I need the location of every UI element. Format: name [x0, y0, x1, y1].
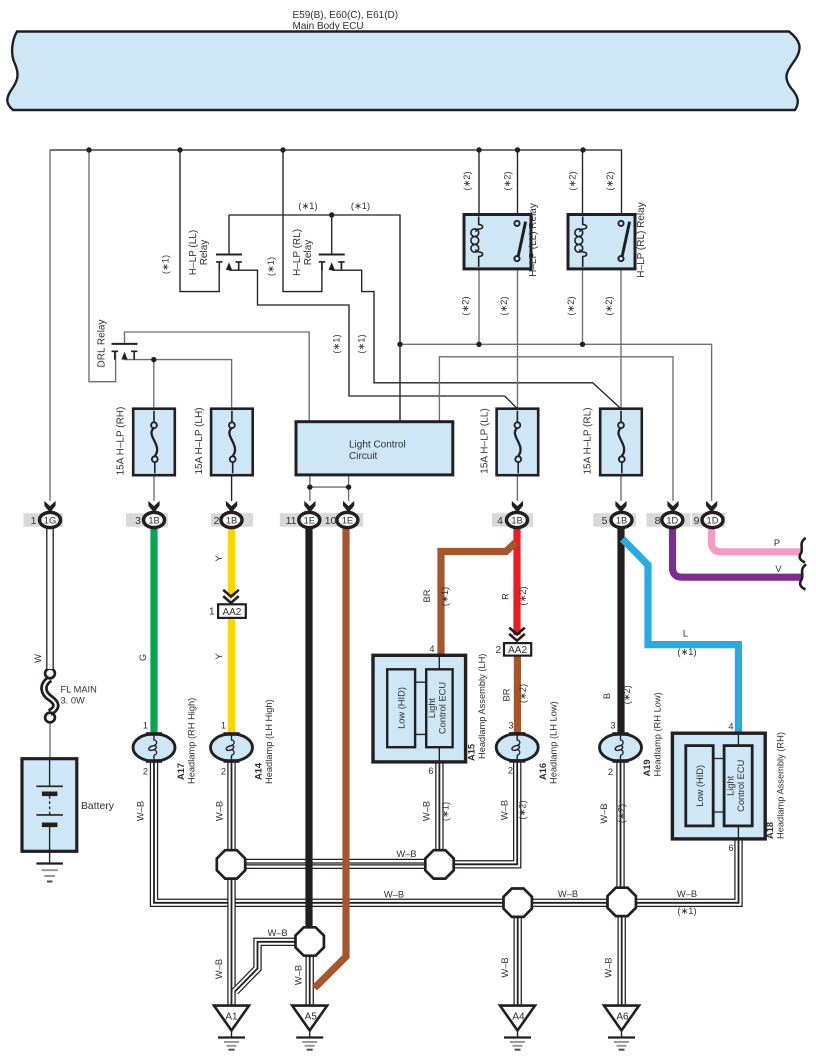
wire: RL relay coil down to coil node [582, 269, 584, 344]
splice octagon J4 [608, 888, 636, 916]
svg-text:9: 9 [694, 516, 700, 527]
svg-text:(∗2): (∗2) [517, 800, 527, 819]
svg-text:15A H–LP (RH): 15A H–LP (RH) [116, 407, 127, 476]
svg-text:(∗2): (∗2) [566, 296, 576, 315]
svg-text:(∗2): (∗2) [461, 296, 471, 315]
svg-text:(∗1): (∗1) [677, 647, 696, 657]
fusible link FL MAIN 3.0W [44, 669, 56, 723]
svg-text:5: 5 [602, 516, 608, 527]
svg-text:A19: A19 [642, 759, 652, 776]
wire BR: brown branch to headlamp assembly LH pin 4 [441, 543, 516, 657]
headlamp bulb A14 (LH High) [211, 732, 253, 763]
continuation brace on violet wire [800, 565, 806, 590]
wire B: black wire connector 5 to headlamp A19 [617, 524, 624, 734]
svg-text:R: R [501, 593, 511, 600]
transistor H-LP (RL) Relay [319, 255, 345, 271]
svg-text:3: 3 [610, 721, 615, 731]
arrow into connector 4 [512, 501, 523, 513]
svg-text:15A H–LP (LH): 15A H–LP (LH) [194, 407, 205, 474]
wire: bus drop to H-LP (RL) relay transistor left pin [283, 150, 322, 292]
wire W-B: headlamp A19 down to splice [616, 760, 624, 889]
wire BR: brown wire connector 10 to ground A5 [315, 524, 347, 988]
svg-text:Headlamp (LH Low): Headlamp (LH Low) [549, 701, 559, 784]
wire: bus drop to LL relay switch [517, 150, 519, 215]
wire W-B: splice down to ground A1 [227, 878, 235, 1007]
wire: Light Control Circuit pin to connector 8 (1D) [439, 357, 673, 501]
wire: bus drop to DRL relay left pin [89, 150, 116, 382]
ground A1 [214, 1006, 249, 1050]
svg-text:(∗1): (∗1) [332, 334, 342, 353]
battery box [22, 759, 77, 852]
splice octagon J3 [504, 889, 532, 917]
svg-text:1B: 1B [148, 516, 159, 526]
svg-text:A18: A18 [765, 822, 775, 839]
headlamp bulb A19 (RH Low) [600, 732, 642, 763]
wire: bus drop to H-LP (LL) relay transistor left pin [180, 150, 219, 292]
fuse 15A H-LP (LL) [497, 409, 539, 476]
svg-text:W–B: W–B [500, 957, 510, 977]
svg-text:Y: Y [214, 555, 224, 561]
arrow into connector 5 [615, 501, 626, 513]
wire W-B: upper narrow pair splice to splice [245, 859, 426, 864]
svg-text:1B: 1B [616, 516, 627, 526]
svg-text:8: 8 [655, 516, 661, 527]
wire: LL relay coil down to coil node [478, 269, 480, 344]
svg-text:Light: Light [726, 775, 736, 796]
Main Body ECU band [7, 32, 799, 111]
svg-text:BR: BR [502, 688, 512, 701]
continuation brace on pink wire [800, 538, 806, 563]
svg-text:1E: 1E [342, 516, 353, 526]
svg-text:(∗2): (∗2) [622, 685, 632, 704]
wire W-B: headlamp A17 to splice, long run to right [154, 760, 504, 903]
headlamp bulb A17 (RH High) [133, 732, 175, 763]
svg-text:A15: A15 [467, 744, 477, 761]
svg-text:Y: Y [214, 653, 224, 659]
svg-text:15A H–LP (RL): 15A H–LP (RL) [583, 407, 594, 474]
svg-text:(∗1): (∗1) [677, 906, 696, 916]
svg-text:W–B: W–B [396, 849, 416, 859]
headlamp assembly LH box A15 [373, 655, 466, 762]
svg-text:Low (HID): Low (HID) [397, 687, 407, 729]
svg-text:H–LP (LL): H–LP (LL) [188, 230, 199, 275]
svg-text:(∗2): (∗2) [568, 171, 578, 190]
svg-text:W–B: W–B [603, 957, 613, 977]
svg-text:H–LP (RL): H–LP (RL) [292, 229, 303, 276]
svg-text:1B: 1B [226, 516, 237, 526]
wire W-B: headlamp A16 down and left to splice [453, 760, 517, 865]
wire W-B: splice down to ground A4 [514, 917, 522, 1007]
wire BR: brown wire AA2 to headlamp A16 [514, 656, 521, 734]
svg-text:W–B: W–B [294, 965, 304, 985]
connector oval 8 (1D) [662, 512, 683, 527]
splice octagon J1 [217, 850, 245, 878]
wire: LL transistor output to 15A H-LP (LL) fuse [229, 270, 517, 409]
svg-text:(∗1): (∗1) [440, 802, 450, 821]
relay H-LP (RL) Relay box [568, 215, 635, 269]
arrow into connector 10 [343, 501, 354, 513]
svg-text:W–B: W–B [268, 928, 288, 938]
svg-text:Low (HID): Low (HID) [695, 765, 705, 807]
connector oval 5 (1B) [611, 512, 632, 527]
wire: LH fuse output to connector 2 (1B) [231, 475, 233, 501]
wire W-B: splice down to ground A5 [306, 955, 314, 1006]
fuse 15A H-LP (RH) [133, 409, 175, 476]
wire: bus drop to RL relay coil [582, 150, 584, 215]
wire L: light blue wire to headlamp assembly RH pin 4 [623, 539, 739, 733]
ground A6 [604, 1006, 639, 1050]
svg-text:Battery: Battery [81, 801, 115, 812]
wire W-B: splice to headlamp assembly RH pin 6 [635, 838, 738, 903]
svg-text:(∗1): (∗1) [351, 201, 370, 211]
transistor DRL Relay [112, 344, 138, 360]
svg-text:1: 1 [31, 516, 37, 527]
fuse 15A H-LP (LH) [211, 409, 253, 476]
wire: LL relay switch down to LL fuse [517, 269, 519, 409]
wire W-B: lower narrow pair splice to splice [245, 864, 426, 869]
svg-text:B: B [602, 693, 612, 699]
svg-text:A17: A17 [176, 763, 186, 780]
connector junction AA2 pin 2 with double chevron [509, 628, 525, 641]
svg-text:1G: 1G [44, 516, 56, 526]
connector oval 11 (1E) [299, 512, 320, 527]
svg-text:1B: 1B [511, 516, 522, 526]
wire: bus drop to connector 1 (1G) [49, 150, 51, 501]
arrow into connector 3 [148, 501, 159, 513]
wire: Light Control Circuit outputs to connectors 11 and 10 (1E) [310, 475, 349, 501]
headlamp bulb A16 (LH Low) [496, 732, 538, 763]
connector oval 2 (1B) [221, 512, 242, 527]
svg-text:W–B: W–B [136, 801, 146, 821]
connector oval 9 (1D) [702, 512, 723, 527]
fuse 15A H-LP (RL) [600, 409, 642, 476]
transistor H-LP (LL) Relay [216, 255, 242, 271]
svg-text:W–B: W–B [599, 803, 609, 823]
wire: bus drop to LL relay coil [478, 150, 480, 215]
wire: RH fuse output to connector 3 (1B) [153, 475, 155, 501]
arrow into connector 8 [667, 501, 678, 513]
wire: RL transistor right stem [341, 262, 343, 270]
wire: RL transistor output to 15A H-LP (RL) fuse [332, 270, 621, 409]
wire Y: yellow wire AA2 to headlamp A14 [228, 618, 235, 734]
wire W-B: splice to splice run [532, 899, 608, 907]
svg-text:4: 4 [728, 722, 733, 732]
relay H-LP (LL) Relay box [464, 215, 531, 269]
splice octagon J5 [296, 927, 324, 955]
svg-text:2: 2 [221, 767, 226, 777]
connector oval 1 (1G) [40, 512, 61, 527]
wire B: black wire connector 11 to splice [305, 524, 312, 928]
battery ground symbol [36, 851, 63, 881]
svg-text:1: 1 [209, 607, 215, 618]
wire: FL MAIN fuse to battery [49, 723, 51, 759]
wire: RL relay switch down to RL fuse [620, 269, 622, 409]
svg-text:1E: 1E [304, 516, 315, 526]
svg-text:(∗2): (∗2) [617, 804, 627, 823]
svg-text:11: 11 [286, 516, 297, 527]
svg-text:A6: A6 [616, 1012, 629, 1023]
ground A4 [500, 1006, 535, 1050]
wire: LL fuse output to connector 4 (1B) [516, 475, 518, 501]
svg-text:(∗2): (∗2) [605, 171, 615, 190]
svg-text:FL MAIN: FL MAIN [61, 685, 97, 695]
svg-text:(∗1): (∗1) [266, 257, 276, 276]
Light Control Circuit box [296, 422, 453, 475]
svg-text:A5: A5 [305, 1012, 318, 1023]
svg-text:Headlamp (RH High): Headlamp (RH High) [187, 698, 197, 784]
svg-text:Headlamp Assembly (RH): Headlamp Assembly (RH) [776, 732, 786, 839]
svg-text:(∗1): (∗1) [161, 255, 171, 274]
svg-text:W–B: W–B [214, 959, 224, 979]
svg-text:2: 2 [143, 767, 148, 777]
svg-text:BR: BR [422, 589, 432, 602]
wire P: pink wire connector 9 [712, 524, 801, 552]
wire: RL fuse output to connector 5 (1B) [620, 475, 622, 501]
svg-text:V: V [775, 564, 782, 574]
wire: RL transistor gate stub [331, 215, 333, 255]
svg-text:W: W [33, 654, 43, 663]
svg-text:G: G [138, 654, 148, 661]
svg-text:(∗2): (∗2) [503, 171, 513, 190]
svg-text:Light: Light [427, 698, 437, 719]
svg-text:(∗2): (∗2) [518, 684, 528, 703]
svg-text:W–B: W–B [677, 889, 697, 899]
arrow into connector 1 [44, 501, 55, 513]
wire: LL transistor gate stub [228, 215, 230, 255]
svg-text:1: 1 [221, 721, 226, 731]
svg-text:(∗2): (∗2) [518, 586, 528, 605]
svg-text:E59(B), E60(C), E61(D): E59(B), E60(C), E61(D) [293, 10, 399, 21]
svg-text:2: 2 [495, 645, 501, 656]
arrow into connector 11 [304, 501, 315, 513]
connector band row [23, 513, 725, 527]
svg-text:(∗1): (∗1) [298, 201, 317, 211]
svg-text:W–B: W–B [422, 801, 432, 821]
svg-text:Light Control: Light Control [349, 440, 406, 451]
wire G: green wire to headlamp A17 [150, 524, 157, 734]
svg-text:1: 1 [143, 721, 148, 731]
svg-text:H–LP (LL) Relay: H–LP (LL) Relay [528, 203, 539, 277]
wire W-B: splice down to ground A6 [618, 916, 626, 1007]
svg-text:(∗1): (∗1) [357, 334, 367, 353]
svg-text:6: 6 [428, 766, 433, 776]
wire W-B: headlamp A14 down to splice [227, 760, 235, 852]
svg-text:15A H–LP (LL): 15A H–LP (LL) [480, 408, 491, 473]
battery internal plates [36, 759, 63, 852]
wire: relay coil node line to connector 9 (1D) [400, 344, 712, 501]
svg-text:1D: 1D [707, 516, 719, 526]
svg-text:AA2: AA2 [222, 607, 241, 618]
svg-text:4: 4 [429, 644, 434, 654]
svg-text:Main Body ECU: Main Body ECU [293, 21, 364, 32]
wire: DRL relay gate from Light Control Circuit [125, 332, 310, 422]
wire: power bus from battery feed to relays [50, 150, 622, 215]
junction dots on power bus and nodes [86, 147, 585, 490]
svg-text:W–B: W–B [558, 889, 578, 899]
svg-text:Circuit: Circuit [349, 451, 378, 462]
wire: LL transistor right stem [238, 262, 240, 270]
svg-text:2: 2 [508, 766, 513, 776]
wire Y: yellow wire to AA2 [228, 524, 235, 597]
svg-text:AA2: AA2 [508, 645, 527, 656]
svg-text:W–B: W–B [215, 801, 225, 821]
wire W-B: headlamp assembly LH pin 6 to splice [435, 761, 443, 851]
svg-text:2: 2 [214, 516, 220, 527]
svg-text:3. 0W: 3. 0W [61, 696, 86, 706]
svg-text:10: 10 [325, 516, 337, 527]
headlamp assembly RH box A18 [672, 733, 765, 839]
connector oval 10 (1E) [337, 512, 358, 527]
svg-text:W–B: W–B [500, 800, 510, 820]
svg-text:1D: 1D [666, 516, 678, 526]
svg-text:W–B: W–B [384, 890, 404, 900]
svg-text:Relay: Relay [199, 240, 210, 266]
svg-text:H–LP (RL) Relay: H–LP (RL) Relay [636, 202, 647, 277]
svg-text:Control ECU: Control ECU [438, 682, 448, 734]
svg-text:3: 3 [508, 721, 513, 731]
svg-text:P: P [774, 538, 780, 548]
splice octagon J2 [425, 850, 453, 878]
connector junction AA2 pin 1 with double chevron [223, 590, 239, 603]
wire: gate line (*1) to both relay transistors and down to Light Control Circuit [229, 215, 400, 422]
wire V: violet wire connector 8 [673, 524, 802, 577]
arrow into connector 2 [226, 501, 237, 513]
svg-text:Headlamp (LH High): Headlamp (LH High) [264, 699, 274, 784]
svg-text:A4: A4 [512, 1012, 525, 1023]
connector oval 3 (1B) [144, 512, 165, 527]
svg-text:3: 3 [135, 516, 141, 527]
svg-text:A14: A14 [254, 762, 264, 780]
svg-text:(∗2): (∗2) [462, 171, 472, 190]
wire R: red wire connector 4 to AA2 [513, 524, 520, 635]
wire W-B: splice left and diagonal to ground A1 wire [235, 942, 296, 992]
ground A5 [292, 1006, 327, 1050]
svg-text:4: 4 [497, 516, 503, 527]
svg-text:Headlamp (RH Low): Headlamp (RH Low) [653, 692, 663, 776]
wire W: white wire from connector 1G to FL MAIN [46, 524, 54, 669]
svg-text:Control ECU: Control ECU [736, 760, 746, 812]
svg-text:Headlamp Assembly (LH): Headlamp Assembly (LH) [477, 654, 487, 759]
svg-text:(∗2): (∗2) [499, 296, 509, 315]
svg-text:2: 2 [608, 767, 613, 777]
svg-text:(∗1): (∗1) [440, 587, 450, 606]
svg-text:A16: A16 [538, 763, 548, 780]
svg-text:DRL Relay: DRL Relay [97, 320, 108, 368]
svg-text:(∗2): (∗2) [604, 296, 614, 315]
svg-text:A1: A1 [225, 1012, 238, 1023]
connector oval 4 (1B) [507, 512, 528, 527]
wire: DRL relay output to headlamp fuses [125, 351, 232, 408]
arrow into connector 9 [706, 501, 717, 513]
svg-text:Relay: Relay [303, 240, 314, 266]
svg-text:L: L [683, 629, 688, 639]
svg-text:6: 6 [728, 843, 733, 853]
